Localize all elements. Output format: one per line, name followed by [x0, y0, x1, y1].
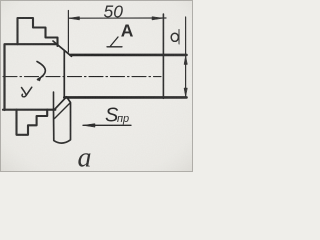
paper background [0, 0, 193, 172]
diameter arrowhead up [184, 55, 187, 64]
workpiece bottom edge [64, 96, 186, 99]
workpiece shoulder face [63, 51, 65, 98]
chuck bottom jaw (stepped) [17, 110, 48, 135]
gamma label [22, 87, 32, 97]
workpiece cone shoulder [53, 41, 72, 56]
cutting tool face line [55, 103, 71, 119]
rotation arc arrowhead [37, 78, 41, 81]
bottom jaw front clamping edge [53, 92, 55, 110]
centerline (dash-dot) [3, 76, 161, 78]
dimension line 50 [69, 17, 166, 19]
extension line left of 50 [67, 11, 69, 53]
chuck body [3, 44, 58, 110]
arrowhead right of 50 dimension [152, 17, 163, 20]
diameter dimension line [185, 17, 187, 97]
diameter value glyph (stem) [178, 30, 180, 44]
scan border frame [1, 1, 193, 172]
chuck top jaw (stepped) [18, 18, 58, 46]
feed arrowhead [83, 124, 95, 127]
vignette [0, 0, 1, 1]
workpiece top edge [71, 54, 187, 57]
diameter value glyph (loop) [171, 33, 178, 41]
arrowhead left of 50 dimension [69, 17, 80, 20]
feed arrow Spr [83, 124, 131, 126]
rotation arc [37, 62, 45, 80]
diameter arrowhead down [184, 88, 187, 97]
paper noise overlay [0, 0, 1, 1]
surface A leader mark [107, 37, 122, 47]
workpiece right end face [162, 14, 164, 98]
cutting tool outline [54, 97, 71, 143]
